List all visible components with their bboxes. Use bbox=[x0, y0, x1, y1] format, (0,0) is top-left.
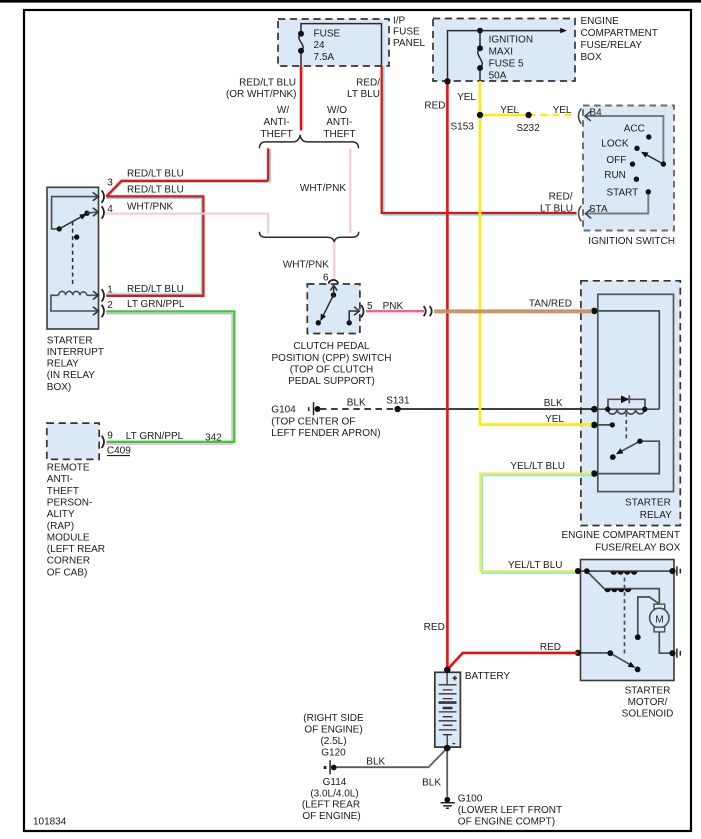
svg-text:BOX: BOX bbox=[581, 52, 602, 63]
svg-text:YEL: YEL bbox=[545, 414, 564, 425]
svg-text:IGNITION SWITCH: IGNITION SWITCH bbox=[588, 236, 675, 247]
svg-text:OF CAB): OF CAB) bbox=[47, 567, 88, 578]
svg-text:INTERRUPT: INTERRUPT bbox=[47, 347, 104, 358]
svg-text:G114: G114 bbox=[323, 777, 347, 788]
svg-text:RED/: RED/ bbox=[356, 78, 380, 89]
svg-text:(RIGHT SIDE: (RIGHT SIDE bbox=[303, 713, 364, 724]
svg-text:G100: G100 bbox=[458, 793, 483, 804]
svg-text:BLK: BLK bbox=[347, 398, 366, 409]
svg-text:ACC: ACC bbox=[624, 124, 645, 135]
svg-text:RED: RED bbox=[424, 101, 445, 112]
svg-text:50A: 50A bbox=[489, 70, 507, 81]
svg-text:LEFT FENDER APRON): LEFT FENDER APRON) bbox=[271, 428, 380, 439]
svg-text:WHT/PNK: WHT/PNK bbox=[127, 202, 173, 213]
svg-text:RED/LT BLU: RED/LT BLU bbox=[127, 284, 184, 295]
svg-text:OF ENGINE): OF ENGINE) bbox=[302, 811, 360, 822]
svg-text:ANTI-: ANTI- bbox=[47, 474, 73, 485]
svg-text:ALITY: ALITY bbox=[47, 509, 75, 520]
svg-text:RELAY: RELAY bbox=[47, 359, 79, 370]
svg-text:B4: B4 bbox=[590, 108, 603, 119]
svg-text:(LEFT REAR: (LEFT REAR bbox=[47, 544, 105, 555]
svg-text:W/O: W/O bbox=[327, 105, 347, 116]
svg-text:101834: 101834 bbox=[33, 817, 67, 828]
svg-text:TAN/RED: TAN/RED bbox=[529, 299, 572, 310]
svg-text:342: 342 bbox=[205, 432, 222, 443]
svg-text:FUSE/RELAY: FUSE/RELAY bbox=[581, 40, 643, 51]
svg-text:S131: S131 bbox=[386, 395, 410, 406]
svg-text:FUSE 5: FUSE 5 bbox=[489, 59, 524, 70]
svg-text:PNK: PNK bbox=[383, 301, 404, 312]
svg-text:(2.5L): (2.5L) bbox=[320, 736, 346, 747]
svg-text:MOTOR/: MOTOR/ bbox=[628, 697, 668, 708]
svg-text:7.5A: 7.5A bbox=[314, 52, 335, 63]
svg-text:YEL: YEL bbox=[500, 105, 519, 116]
svg-text:LT GRN/PPL: LT GRN/PPL bbox=[126, 431, 184, 442]
svg-text:LT BLU: LT BLU bbox=[347, 89, 380, 100]
svg-text:POSITION (CPP) SWITCH: POSITION (CPP) SWITCH bbox=[272, 353, 392, 364]
svg-text:RED/LT BLU: RED/LT BLU bbox=[127, 169, 184, 180]
svg-text:BOX): BOX) bbox=[47, 382, 71, 393]
svg-text:RED: RED bbox=[540, 642, 561, 653]
svg-text:(LOWER LEFT FRONT: (LOWER LEFT FRONT bbox=[458, 805, 562, 816]
svg-text:SOLENOID: SOLENOID bbox=[622, 709, 674, 720]
svg-text:THEFT: THEFT bbox=[323, 129, 355, 140]
svg-text:OF ENGINE COMPT): OF ENGINE COMPT) bbox=[458, 817, 555, 828]
svg-text:REMOTE: REMOTE bbox=[47, 463, 90, 474]
svg-text:THEFT: THEFT bbox=[47, 486, 79, 497]
svg-text:COMPARTMENT: COMPARTMENT bbox=[581, 28, 658, 39]
svg-text:G120: G120 bbox=[321, 748, 346, 759]
svg-text:ENGINE COMPARTMENT: ENGINE COMPARTMENT bbox=[561, 530, 680, 541]
svg-text:PANEL: PANEL bbox=[393, 38, 425, 49]
svg-text:RUN: RUN bbox=[604, 170, 626, 181]
svg-text:BLK: BLK bbox=[366, 756, 385, 767]
svg-text:PERSON-: PERSON- bbox=[47, 498, 93, 509]
svg-text:STARTER: STARTER bbox=[47, 335, 93, 346]
svg-text:BLK: BLK bbox=[422, 778, 441, 789]
svg-text:S232: S232 bbox=[516, 123, 540, 134]
svg-text:(LEFT REAR: (LEFT REAR bbox=[302, 800, 360, 811]
svg-text:LT GRN/PPL: LT GRN/PPL bbox=[127, 299, 185, 310]
svg-text:(RAP): (RAP) bbox=[47, 521, 74, 532]
svg-text:ANTI-: ANTI- bbox=[264, 117, 290, 128]
svg-text:3: 3 bbox=[107, 178, 113, 189]
svg-text:ANTI-: ANTI- bbox=[326, 117, 352, 128]
svg-text:RED/LT BLU: RED/LT BLU bbox=[239, 78, 296, 89]
svg-text:2: 2 bbox=[107, 300, 113, 311]
svg-text:(OR WHT/PNK): (OR WHT/PNK) bbox=[226, 89, 297, 100]
svg-text:(TOP CENTER OF: (TOP CENTER OF bbox=[271, 416, 355, 427]
svg-text:5: 5 bbox=[367, 301, 373, 312]
svg-text:9: 9 bbox=[107, 431, 113, 442]
svg-text:M: M bbox=[655, 615, 663, 626]
svg-text:G104: G104 bbox=[271, 404, 296, 415]
svg-text:RED/LT BLU: RED/LT BLU bbox=[127, 185, 184, 196]
svg-text:1: 1 bbox=[107, 284, 113, 295]
svg-text:FUSE: FUSE bbox=[314, 29, 341, 40]
svg-text:YEL/LT BLU: YEL/LT BLU bbox=[510, 461, 565, 472]
svg-text:LOCK: LOCK bbox=[601, 139, 629, 150]
svg-text:RELAY: RELAY bbox=[640, 510, 672, 521]
svg-text:STA: STA bbox=[589, 204, 608, 215]
svg-text:PEDAL SUPPORT): PEDAL SUPPORT) bbox=[288, 376, 375, 387]
svg-text:STARTER: STARTER bbox=[625, 498, 671, 509]
svg-text:(IN RELAY: (IN RELAY bbox=[47, 370, 95, 381]
svg-text:START: START bbox=[606, 187, 638, 198]
svg-text:6: 6 bbox=[323, 273, 329, 284]
svg-text:BATTERY: BATTERY bbox=[465, 671, 511, 682]
svg-text:ENGINE: ENGINE bbox=[581, 16, 620, 27]
svg-text:W/: W/ bbox=[277, 105, 289, 116]
svg-text:YEL: YEL bbox=[457, 92, 476, 103]
svg-text:LT BLU: LT BLU bbox=[540, 204, 573, 215]
svg-text:THEFT: THEFT bbox=[260, 129, 292, 140]
svg-text:OFF: OFF bbox=[606, 155, 626, 166]
svg-text:MAXI: MAXI bbox=[489, 47, 513, 58]
svg-text:OF ENGINE): OF ENGINE) bbox=[304, 725, 362, 736]
svg-text:24: 24 bbox=[314, 40, 326, 51]
svg-text:C409: C409 bbox=[107, 445, 131, 456]
svg-text:CLUTCH PEDAL: CLUTCH PEDAL bbox=[293, 341, 370, 352]
svg-text:I/P: I/P bbox=[393, 15, 406, 26]
svg-text:IGNITION: IGNITION bbox=[489, 35, 533, 46]
svg-text:STARTER: STARTER bbox=[625, 685, 671, 696]
svg-text:(3.0L/4.0L): (3.0L/4.0L) bbox=[310, 788, 358, 799]
svg-text:YEL/LT BLU: YEL/LT BLU bbox=[508, 560, 563, 571]
svg-text:BLK: BLK bbox=[544, 398, 563, 409]
svg-text:YEL: YEL bbox=[553, 105, 572, 116]
svg-text:RED/: RED/ bbox=[549, 192, 573, 203]
svg-text:CORNER: CORNER bbox=[47, 556, 90, 567]
svg-text:RED: RED bbox=[424, 622, 445, 633]
svg-text:FUSE/RELAY BOX: FUSE/RELAY BOX bbox=[595, 542, 681, 553]
svg-text:(TOP OF CLUTCH: (TOP OF CLUTCH bbox=[290, 364, 374, 375]
svg-text:FUSE: FUSE bbox=[393, 27, 420, 38]
svg-text:WHT/PNK: WHT/PNK bbox=[283, 259, 329, 270]
svg-text:MODULE: MODULE bbox=[47, 532, 90, 543]
svg-text:WHT/PNK: WHT/PNK bbox=[300, 183, 346, 194]
svg-text:S153: S153 bbox=[451, 122, 475, 133]
svg-text:4: 4 bbox=[107, 204, 113, 215]
